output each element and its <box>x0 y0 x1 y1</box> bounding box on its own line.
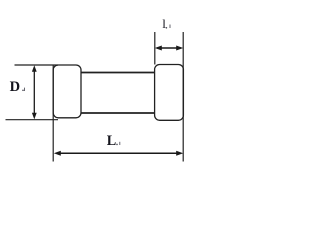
right vertical line (l extension + cap right edge + L extension) <box>182 32 184 162</box>
svg-text:L: L <box>107 133 116 149</box>
svg-text:D: D <box>10 79 20 95</box>
l left extension line <box>154 32 156 65</box>
label D subscript dot <box>22 90 24 92</box>
D dimension arrow <box>32 65 37 119</box>
label L subscript mark <box>119 142 121 145</box>
D bottom extension line <box>6 119 59 121</box>
label l subscript dot <box>166 27 168 29</box>
right end cap <box>155 65 184 121</box>
D top extension line <box>15 64 59 66</box>
l dimension arrow <box>155 46 183 51</box>
left vertical line (cap left edge + L extension) <box>52 65 54 162</box>
label L subscript dot <box>116 144 118 146</box>
left end cap <box>53 65 81 118</box>
svg-text:l: l <box>162 16 166 31</box>
label l subscript mark <box>169 25 171 29</box>
L dimension arrow <box>54 151 183 156</box>
body top edge <box>81 72 155 74</box>
label D subscript mark <box>24 88 26 91</box>
body bottom edge <box>81 112 155 114</box>
